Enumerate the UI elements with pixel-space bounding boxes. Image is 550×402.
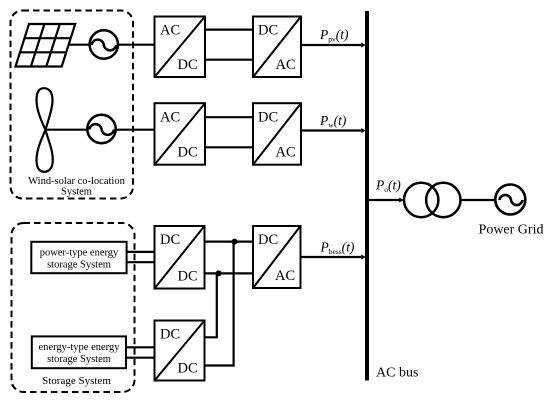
block B2: energy-type energy storage System — [32, 336, 126, 368]
converter U4 DC/AC (wind inverter) — [253, 103, 301, 165]
AC source G1 (PV generator) — [90, 30, 118, 58]
dashed enclosure: Storage System — [12, 223, 135, 392]
wire: U3-U4 DC link top — [205, 116, 253, 118]
svg-text:DC: DC — [178, 145, 198, 161]
svg-text:AC bus: AC bus — [376, 366, 418, 381]
svg-text:DC: DC — [178, 57, 198, 73]
svg-text:DC: DC — [258, 23, 278, 39]
wire: U6 output to AC bus (arrow) — [301, 255, 366, 260]
converter U5 DC/DC (power-type) — [155, 226, 205, 289]
svg-text:DC: DC — [258, 110, 278, 126]
svg-text:Po(t): Po(t) — [375, 178, 401, 195]
wire: AC bus to transformer T1 (arrow) — [369, 198, 404, 203]
wire: B2 to U7 bottom — [126, 357, 155, 359]
wire: PV panel to generator G1 — [68, 44, 90, 46]
wind turbine W1 — [37, 88, 53, 172]
wire: U2 output to AC bus (arrow) — [301, 43, 366, 48]
svg-text:AC: AC — [160, 110, 180, 126]
svg-text:DC: DC — [160, 327, 180, 343]
wire: U3-U4 DC link bottom — [205, 146, 253, 148]
converter U3 AC/DC (wind rectifier) — [155, 103, 206, 165]
AC source G3 (power grid) — [495, 185, 525, 215]
wire: B1 to U5 bottom — [127, 261, 155, 263]
label: Wind-solar co-location System — [28, 176, 125, 197]
svg-text:DC: DC — [160, 232, 180, 248]
converter U2 DC/AC (PV inverter) — [253, 17, 301, 78]
transformer T1 — [404, 183, 460, 217]
AC source G2 (wind generator) — [87, 115, 115, 143]
svg-text:AC: AC — [275, 268, 295, 284]
wire: T1 to power grid G3 — [461, 199, 497, 201]
block B1: power-type energy storage System — [31, 242, 126, 273]
svg-text:storage System: storage System — [47, 354, 111, 365]
wire: U1-U2 DC link top — [205, 29, 253, 31]
wire: G1 to converter U1 — [118, 44, 155, 46]
svg-text:DC: DC — [178, 361, 198, 377]
svg-text:Storage System: Storage System — [42, 375, 111, 387]
dashed enclosure: Wind-solar co-location System — [11, 11, 134, 199]
svg-text:DC: DC — [178, 269, 198, 285]
solar panel PV — [16, 24, 76, 67]
wire: U5 output top to U6 — [205, 241, 254, 243]
svg-text:AC: AC — [276, 145, 296, 161]
node J2 — [216, 270, 222, 276]
svg-text:System: System — [61, 186, 92, 197]
converter U7 DC/DC (energy-type) — [155, 321, 205, 381]
wire: turbine hub to generator G2 — [46, 129, 88, 131]
wire: U4 output to AC bus (arrow) — [301, 128, 366, 133]
AC bus bar — [365, 11, 369, 381]
wire: B2 to U7 top — [126, 346, 155, 348]
wire: B1 to U5 top — [127, 251, 155, 253]
svg-text:Power Grid: Power Grid — [479, 223, 544, 238]
wire: U1-U2 DC link bottom — [205, 59, 253, 61]
node J1 — [232, 239, 238, 245]
svg-text:DC: DC — [258, 232, 278, 248]
wire: U5 output bottom to U6 — [205, 272, 254, 274]
wire: G2 to converter U3 — [116, 129, 155, 131]
svg-text:storage System: storage System — [47, 260, 111, 271]
converter U6 DC/AC (storage inverter) — [253, 226, 301, 288]
converter U1 AC/DC (PV rectifier) — [155, 17, 206, 78]
wire: U7 output top to node J2 — [205, 273, 217, 337]
svg-text:AC: AC — [276, 57, 296, 73]
wire: U7 output bottom to node J1 — [205, 242, 234, 366]
svg-text:Pw(t): Pw(t) — [319, 113, 347, 130]
svg-text:energy-type energy: energy-type energy — [39, 342, 121, 353]
svg-text:power-type energy: power-type energy — [40, 248, 119, 259]
svg-text:AC: AC — [160, 23, 180, 39]
